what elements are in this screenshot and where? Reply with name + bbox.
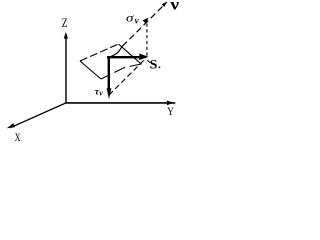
sigma_nu arrowhead on nu line	[143, 18, 149, 24]
Y axis	[66, 102, 175, 104]
normal line nu: dashed part	[122, 2, 167, 46]
svg-text:ν: ν	[169, 0, 179, 13]
svg-text:S: S	[150, 57, 158, 71]
normal line nu: solid curved start at O	[109, 46, 123, 57]
plane parallelogram: lower-left edge B-L	[80, 61, 101, 79]
small dash below S tip	[147, 60, 150, 63]
S arrowhead	[139, 54, 148, 61]
Z axis	[65, 34, 67, 103]
dot after S	[159, 67, 161, 69]
stress vector S (thick horizontal)	[107, 56, 141, 58]
svg-text:ν: ν	[99, 88, 103, 97]
dashed vertical connector sigma tip to S tip	[146, 24, 148, 57]
plane parallelogram: upper-left edge L-T (dashed)	[80, 44, 119, 61]
X axis arrowhead	[7, 123, 15, 128]
tau_nu arrowhead	[107, 88, 112, 99]
svg-text:X: X	[15, 132, 22, 144]
svg-text:Z: Z	[62, 17, 68, 31]
Y axis arrowhead	[167, 101, 174, 106]
plane parallelogram: right edge T-R	[119, 44, 142, 64]
dashed diagonal connector tau tip to S tip	[109, 58, 146, 95]
svg-text:Y: Y	[167, 106, 174, 118]
plane parallelogram: bottom edge R-B (dashed)	[101, 64, 141, 79]
Z axis arrowhead	[64, 32, 68, 39]
nu arrowhead at tip	[162, 2, 167, 7]
shear vector tau_nu (thick vertical)	[108, 57, 110, 90]
X axis	[10, 103, 66, 128]
